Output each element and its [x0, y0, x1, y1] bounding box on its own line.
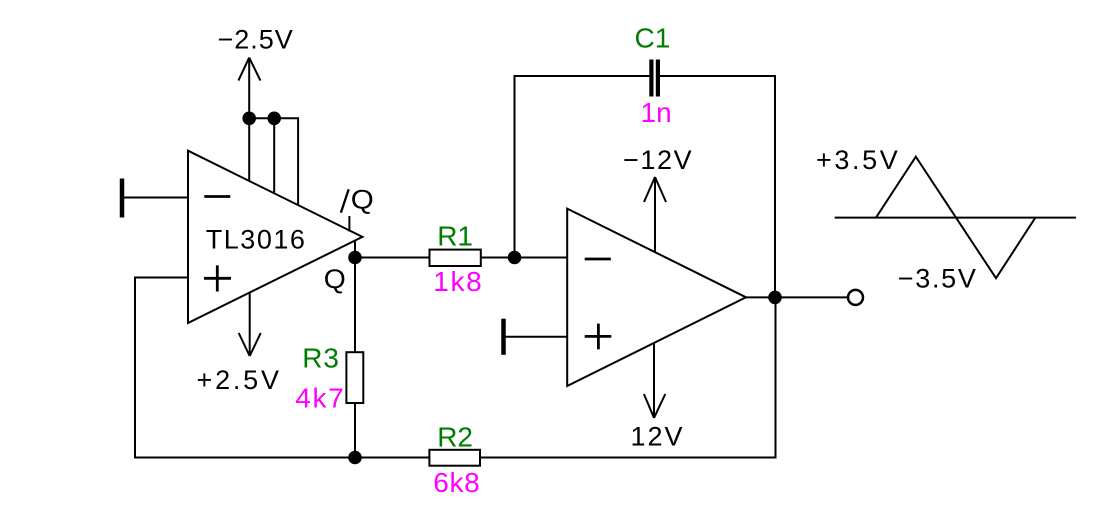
pin stub /Q — [348, 216, 350, 232]
wire supply pin 2 vertical — [273, 118, 275, 193]
terminal output circle — [848, 290, 863, 305]
wire C1 right riser — [774, 75, 776, 297]
comparator minus input symbol — [204, 195, 230, 198]
resistor R3 — [346, 352, 363, 403]
wire supply pin 3 horizontal — [274, 117, 298, 119]
wire supply pin 3 vertical — [297, 117, 299, 205]
resistor R2 — [429, 450, 480, 466]
svg-text:1k8: 1k8 — [433, 266, 483, 297]
wire op-amp output — [746, 296, 847, 298]
waveform baseline — [835, 217, 1076, 219]
wire C1 top left — [514, 75, 650, 77]
svg-text:TL3016: TL3016 — [206, 225, 307, 255]
svg-text:6k8: 6k8 — [433, 467, 480, 498]
op-amp plus input symbol — [585, 324, 612, 350]
junction dot supply pin 2 — [267, 112, 281, 126]
capacitor C1 — [651, 60, 658, 97]
resistor R1 — [430, 250, 481, 266]
svg-text:12V: 12V — [631, 422, 685, 452]
svg-text:R3: R3 — [302, 343, 339, 374]
svg-text:R1: R1 — [437, 221, 473, 252]
wire comparator non-inverting input — [135, 277, 188, 279]
wire bottom node to R2 — [355, 457, 429, 459]
power arrow -2.5V — [238, 58, 260, 181]
wire R1 to inverting node — [481, 257, 567, 259]
comparator U1 TL3016 body — [188, 151, 362, 323]
svg-text:Q: Q — [351, 185, 374, 215]
svg-text:Q: Q — [324, 264, 346, 294]
wire Q to R3 — [354, 258, 356, 353]
op-amp minus input symbol — [585, 258, 611, 261]
op-amp U2 body — [567, 209, 746, 386]
svg-text:+2.5V: +2.5V — [197, 365, 282, 395]
node Q junction dot — [348, 251, 362, 265]
pin stub Q — [354, 241, 356, 258]
wire comparator inverting input — [122, 197, 188, 199]
node inverting input junction dot — [508, 251, 522, 265]
terminal bar inverting input — [120, 179, 125, 218]
junction dot supply pin 1 — [242, 112, 256, 126]
wire R2 to output riser — [480, 457, 777, 459]
waveform triangle wave — [876, 157, 1035, 279]
wire supply dot1 to dot2 — [249, 117, 274, 119]
power arrow -12V — [644, 177, 666, 252]
svg-text:+3.5V: +3.5V — [816, 145, 900, 175]
wire C1 left riser — [514, 76, 516, 258]
power arrow 12V — [644, 343, 665, 418]
label /Q — [341, 185, 374, 215]
power arrow +2.5V — [239, 293, 261, 356]
svg-text:−3.5V: −3.5V — [898, 264, 978, 294]
comparator plus input symbol — [204, 265, 231, 291]
node output junction dot — [768, 291, 782, 305]
wire feedback vertical — [134, 277, 136, 459]
wire C1 top right — [660, 75, 776, 77]
wire R3 to bottom node — [354, 403, 356, 458]
svg-text:R2: R2 — [437, 422, 473, 453]
svg-text:C1: C1 — [635, 23, 671, 54]
svg-text:−2.5V: −2.5V — [218, 25, 294, 55]
svg-text:4k7: 4k7 — [295, 383, 345, 414]
svg-text:1n: 1n — [641, 97, 672, 128]
wire Q to R1 — [355, 257, 430, 259]
svg-text:−12V: −12V — [623, 145, 693, 175]
wire output riser vertical — [775, 297, 777, 457]
terminal bar non-inverting input — [501, 319, 506, 355]
wire op-amp non-inverting input — [504, 336, 568, 338]
node bottom junction dot — [348, 451, 362, 465]
wire feedback bottom horizontal — [135, 457, 355, 459]
